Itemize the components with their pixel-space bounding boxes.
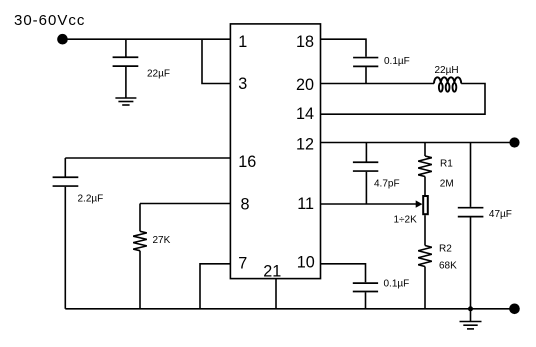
- svg-text:12: 12: [296, 136, 314, 154]
- svg-text:R2: R2: [439, 244, 452, 255]
- svg-text:20: 20: [296, 76, 314, 94]
- svg-text:3: 3: [238, 75, 247, 93]
- svg-text:4.7pF: 4.7pF: [374, 178, 400, 189]
- svg-text:11: 11: [297, 195, 314, 213]
- svg-text:0.1µF: 0.1µF: [384, 279, 410, 290]
- svg-text:14: 14: [296, 105, 314, 123]
- svg-text:30-60Vcc: 30-60Vcc: [14, 12, 85, 29]
- svg-text:16: 16: [238, 153, 256, 171]
- svg-text:27K: 27K: [153, 235, 171, 246]
- svg-text:18: 18: [296, 33, 314, 51]
- svg-text:1: 1: [238, 33, 247, 51]
- svg-text:21: 21: [263, 262, 281, 280]
- svg-text:2M: 2M: [440, 178, 454, 189]
- svg-text:8: 8: [241, 195, 250, 213]
- svg-text:0.1µF: 0.1µF: [384, 56, 410, 67]
- svg-text:68K: 68K: [439, 260, 457, 271]
- svg-text:22µF: 22µF: [147, 69, 170, 80]
- svg-text:1÷2K: 1÷2K: [394, 215, 418, 226]
- svg-text:2.2µF: 2.2µF: [78, 194, 104, 205]
- svg-text:47µF: 47µF: [489, 209, 512, 220]
- svg-text:22µH: 22µH: [435, 65, 459, 76]
- svg-text:7: 7: [238, 254, 247, 272]
- svg-text:R1: R1: [440, 158, 453, 169]
- svg-text:10: 10: [297, 254, 315, 272]
